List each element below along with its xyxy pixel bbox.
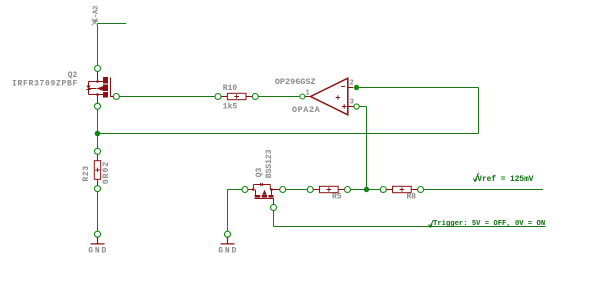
ground GND2	[221, 231, 235, 244]
wire down right side	[478, 88, 480, 134]
wire op-amp pin2 right	[359, 87, 478, 89]
transistor Q2	[86, 66, 119, 110]
label Vref arrow	[473, 173, 478, 182]
wire K-A2 down to Q2 drain	[97, 24, 99, 66]
wire op-amp pin3 stub	[359, 106, 366, 108]
svg-text:BSS123: BSS123	[265, 149, 274, 178]
label Trigger arrow	[429, 220, 434, 227]
svg-text:Vref = 125mV: Vref = 125mV	[477, 176, 533, 184]
wire R5 to R8	[351, 189, 381, 191]
svg-text:0R02: 0R02	[102, 161, 111, 185]
svg-text:1k5: 1k5	[223, 102, 238, 111]
svg-text:R8: R8	[407, 193, 417, 202]
svg-text:Trigger: 5V = OFF, 0V = ON: Trigger: 5V = OFF, 0V = ON	[433, 220, 545, 228]
svg-text:R10: R10	[223, 84, 238, 93]
op-amp U1 OPA2A	[300, 78, 359, 115]
wire Q2 gate to R10	[119, 96, 215, 98]
wire Q2 source down to R23	[97, 109, 99, 148]
resistor R23	[94, 148, 100, 191]
svg-text:OP296GSZ: OP296GSZ	[275, 77, 316, 87]
svg-text:3: 3	[350, 98, 354, 106]
svg-text:Q2: Q2	[68, 71, 78, 80]
svg-text:Q3: Q3	[255, 167, 264, 177]
junction rail node	[364, 187, 369, 192]
wire pin3 down to rail	[366, 107, 368, 190]
resistor R10	[215, 93, 258, 99]
pin 2 junction dot	[354, 85, 359, 90]
wire R10 to op-amp output	[258, 96, 300, 98]
svg-text:OPA2A: OPA2A	[292, 105, 321, 115]
wire feedback to Q2 source	[98, 133, 479, 135]
ground GND1	[91, 231, 105, 244]
svg-text:GND: GND	[88, 247, 108, 256]
wire R23 to GND	[97, 192, 99, 232]
wire trigger net	[274, 226, 546, 228]
svg-text:GND: GND	[218, 247, 238, 256]
resistor R8	[380, 186, 423, 192]
svg-text:2: 2	[350, 80, 354, 88]
svg-text:IRFR3709ZPBF: IRFR3709ZPBF	[12, 80, 78, 89]
wire Q3 gate down	[273, 211, 275, 227]
resistor R5	[307, 186, 350, 192]
junction Q2 source node	[95, 131, 101, 137]
wire down to GND2	[227, 190, 229, 232]
wire Q3 drain to R5	[286, 189, 308, 191]
svg-text:R23: R23	[82, 165, 91, 181]
wire R8 to Vref	[424, 189, 543, 191]
wire Q3 source left	[228, 189, 242, 191]
svg-text:R5: R5	[332, 193, 342, 202]
wire net K-A2 top stub	[98, 23, 127, 25]
svg-text:1: 1	[306, 90, 310, 98]
svg-text:K-A2: K-A2	[92, 5, 100, 23]
node K-A2 anchor cross	[92, 20, 98, 25]
transistor Q3	[242, 183, 286, 211]
